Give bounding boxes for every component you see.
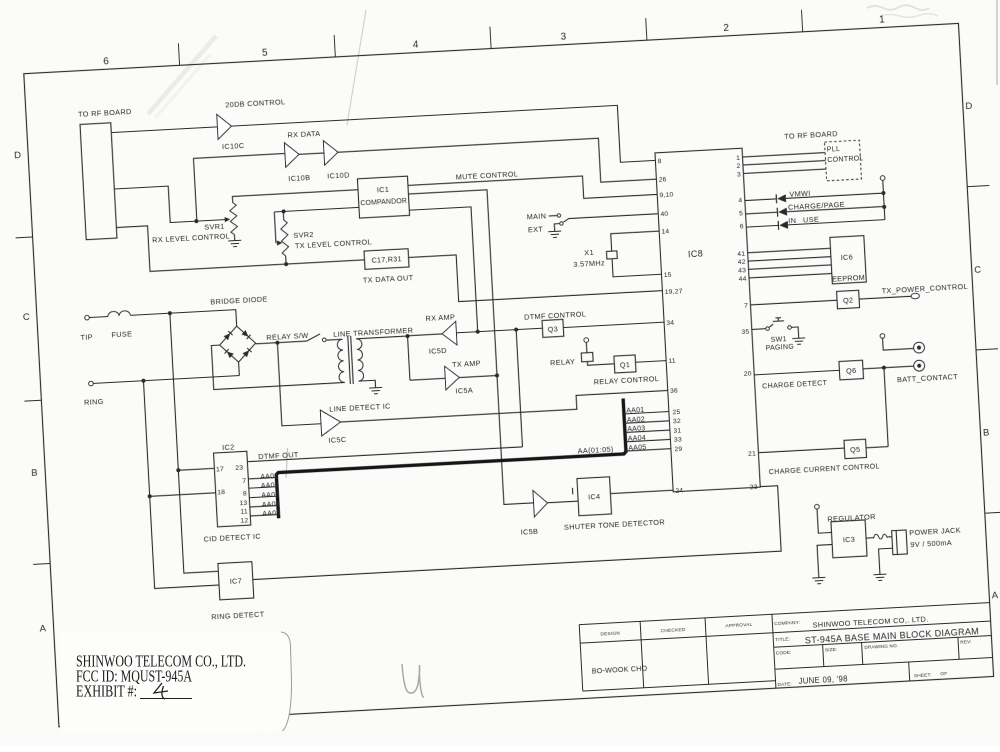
svg-text:8: 8 — [243, 490, 247, 497]
svg-text:24: 24 — [675, 487, 683, 494]
svg-text:X1: X1 — [584, 248, 594, 258]
svg-text:MAIN: MAIN — [526, 211, 546, 221]
svg-text:TX AMP: TX AMP — [452, 359, 481, 370]
svg-text:23: 23 — [235, 464, 243, 471]
svg-text:RX AMP: RX AMP — [425, 312, 455, 323]
svg-text:AA03: AA03 — [627, 425, 646, 434]
svg-text:IC5C: IC5C — [328, 435, 346, 445]
svg-text:VMWI: VMWI — [789, 188, 811, 198]
svg-text:EXHIBIT #:: EXHIBIT #: — [76, 682, 137, 701]
svg-text:PLL: PLL — [827, 146, 841, 154]
svg-text:SVR2: SVR2 — [293, 230, 314, 240]
svg-text:SW1: SW1 — [771, 336, 787, 344]
svg-text:FUSE: FUSE — [111, 329, 132, 339]
svg-text:TIP: TIP — [80, 332, 93, 342]
svg-text:11: 11 — [240, 508, 248, 515]
svg-text:35: 35 — [741, 328, 749, 335]
svg-text:IC5D: IC5D — [429, 346, 447, 356]
svg-text:C: C — [974, 265, 982, 276]
svg-text:C: C — [23, 312, 31, 323]
svg-text:SHEET:: SHEET: — [914, 672, 932, 679]
svg-text:SVR1: SVR1 — [204, 222, 225, 232]
svg-text:AA01: AA01 — [260, 472, 279, 481]
svg-text:3: 3 — [737, 171, 741, 178]
svg-text:29: 29 — [674, 446, 682, 453]
svg-text:AA03: AA03 — [261, 491, 280, 500]
svg-text:REV:: REV: — [960, 639, 972, 646]
svg-text:36: 36 — [670, 388, 678, 395]
svg-text:6: 6 — [103, 56, 110, 67]
svg-text:1: 1 — [736, 155, 740, 162]
svg-text:D: D — [14, 150, 22, 161]
svg-text:B: B — [983, 427, 990, 438]
svg-text:14: 14 — [661, 228, 669, 235]
svg-text:42: 42 — [738, 259, 746, 266]
svg-text:44: 44 — [738, 276, 746, 283]
svg-text:13: 13 — [239, 500, 247, 507]
svg-text:SIZE:: SIZE: — [825, 647, 838, 654]
svg-text:1: 1 — [879, 14, 886, 25]
svg-text:11: 11 — [668, 358, 676, 365]
svg-text:4: 4 — [738, 197, 742, 204]
svg-text:TITLE:: TITLE: — [775, 636, 790, 643]
svg-text:6: 6 — [740, 223, 744, 230]
svg-text:AA02: AA02 — [627, 415, 646, 424]
svg-text:B: B — [31, 468, 38, 479]
svg-text:7: 7 — [242, 478, 246, 485]
svg-text:25: 25 — [672, 409, 680, 416]
svg-text:Q2: Q2 — [843, 295, 854, 305]
svg-text:AA05: AA05 — [262, 509, 281, 518]
svg-text:IC2: IC2 — [222, 442, 235, 452]
svg-text:Q5: Q5 — [850, 445, 861, 455]
svg-text:12: 12 — [240, 517, 248, 524]
svg-text:Q6: Q6 — [846, 366, 857, 376]
svg-text:18: 18 — [217, 489, 225, 496]
svg-text:C17,R31: C17,R31 — [371, 254, 402, 265]
svg-text:20: 20 — [744, 371, 752, 378]
svg-text:2: 2 — [723, 23, 730, 34]
svg-text:AA(01:05): AA(01:05) — [577, 444, 613, 455]
svg-text:IC5A: IC5A — [455, 386, 473, 396]
svg-text:Q1: Q1 — [620, 360, 631, 370]
svg-text:Q3: Q3 — [547, 324, 558, 334]
svg-text:17: 17 — [216, 466, 224, 473]
svg-text:8: 8 — [657, 158, 661, 165]
svg-text:AA04: AA04 — [262, 500, 281, 509]
svg-text:3.57MHz: 3.57MHz — [573, 258, 605, 269]
svg-text:IC10B: IC10B — [288, 173, 310, 183]
svg-text:26: 26 — [658, 176, 666, 183]
svg-text:AA01: AA01 — [626, 406, 645, 415]
svg-text:AA04: AA04 — [628, 434, 647, 443]
svg-text:43: 43 — [738, 267, 746, 274]
svg-text:EEPROM: EEPROM — [832, 273, 865, 284]
svg-text:21: 21 — [748, 450, 756, 457]
svg-text:41: 41 — [737, 251, 745, 258]
svg-text:5: 5 — [739, 210, 743, 217]
svg-text:33: 33 — [674, 437, 682, 444]
svg-text:23: 23 — [750, 484, 758, 491]
svg-text:DATE:: DATE: — [777, 681, 792, 688]
svg-text:3: 3 — [560, 31, 567, 42]
svg-text:32: 32 — [673, 418, 681, 425]
svg-text:15: 15 — [664, 272, 672, 279]
svg-text:DESIGN: DESIGN — [600, 630, 620, 637]
svg-text:RELAY: RELAY — [550, 357, 576, 367]
svg-text:IC10D: IC10D — [327, 170, 350, 180]
svg-text:IC3: IC3 — [843, 535, 856, 545]
svg-text:D: D — [965, 101, 973, 112]
svg-text:IC1: IC1 — [377, 185, 390, 195]
svg-text:IC8: IC8 — [688, 248, 704, 259]
svg-text:34: 34 — [666, 320, 674, 327]
svg-text:AA02: AA02 — [261, 481, 280, 490]
svg-text:40: 40 — [660, 211, 668, 218]
svg-text:AA05: AA05 — [628, 443, 647, 452]
svg-text:IC4: IC4 — [588, 492, 601, 502]
svg-text:OF: OF — [940, 671, 947, 677]
svg-text:9,10: 9,10 — [659, 191, 673, 199]
svg-text:2: 2 — [736, 163, 740, 170]
svg-text:CODE:: CODE: — [776, 650, 792, 657]
svg-text:RING: RING — [84, 397, 104, 407]
svg-text:31: 31 — [673, 427, 681, 434]
svg-text:19,27: 19,27 — [664, 288, 682, 296]
svg-text:IC5B: IC5B — [520, 527, 538, 537]
svg-text:IN_ USE: IN_ USE — [788, 215, 819, 226]
svg-text:IC10C: IC10C — [222, 141, 245, 151]
svg-text:4: 4 — [413, 39, 420, 50]
svg-text:5: 5 — [262, 48, 269, 59]
svg-text:EXT: EXT — [528, 225, 544, 235]
svg-text:7: 7 — [744, 303, 748, 310]
svg-text:IC7: IC7 — [230, 576, 243, 586]
svg-text:RX DATA: RX DATA — [287, 129, 320, 140]
svg-text:IC6: IC6 — [840, 252, 853, 262]
